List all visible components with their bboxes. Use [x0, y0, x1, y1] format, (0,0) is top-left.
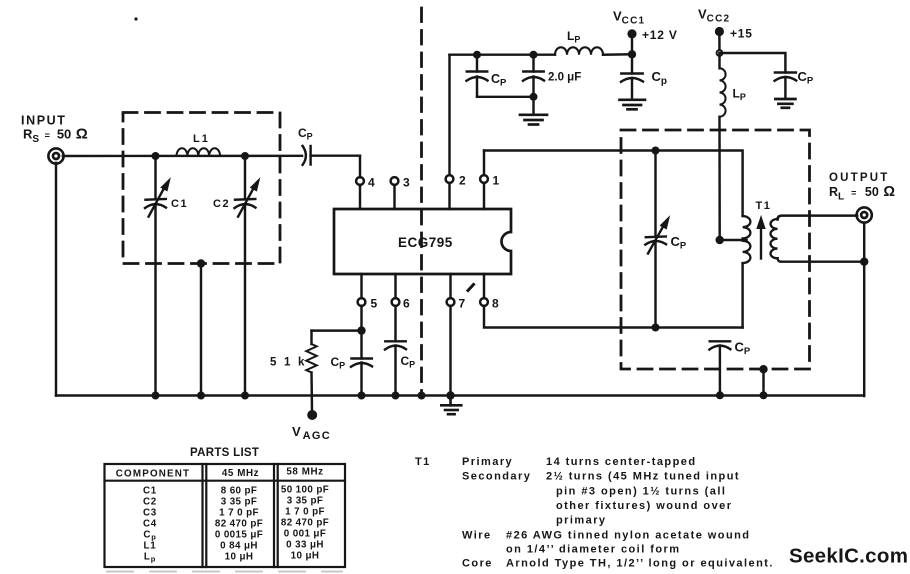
ground main [441, 396, 461, 415]
pin 8 number [492, 297, 499, 311]
svg-text:+15: +15 [730, 27, 753, 41]
node shield-bus [197, 392, 205, 400]
svg-text:pin #3 open) 1½ turns (all: pin #3 open) 1½ turns (all [556, 486, 726, 498]
capacitor Cp pin6 bypass [385, 306, 406, 396]
svg-text:2½ turns (45 MHz tuned input: 2½ turns (45 MHz tuned input [546, 471, 740, 483]
ground Vcc2 [775, 99, 795, 108]
svg-text:0 33 μH: 0 33 μH [286, 540, 324, 551]
wire shield to bus [200, 264, 202, 396]
Vcc2 label [698, 7, 730, 25]
capacitor Cp Vcc2 bypass [775, 73, 797, 99]
svg-text:C4: C4 [143, 519, 157, 530]
wire input down [55, 163, 57, 396]
U1 label [398, 235, 453, 250]
shield box (input tank) [123, 113, 280, 264]
node C2-bus [241, 392, 249, 400]
ground Vcc1 [620, 100, 646, 110]
svg-text:82 470 pF: 82 470 pF [281, 518, 329, 529]
svg-text:CP: CP [298, 126, 313, 142]
pin 1 [480, 175, 488, 209]
op-amp U1 ECG795 [334, 209, 511, 274]
pin 8 [480, 274, 488, 306]
wire Vcc1 rail [450, 53, 556, 55]
INPUT label [21, 114, 67, 128]
svg-text:CP: CP [671, 234, 687, 252]
wire input to tank [63, 155, 302, 158]
svg-text:1 7 0 pF: 1 7 0 pF [285, 507, 325, 518]
svg-text:VCC2: VCC2 [698, 7, 730, 25]
node shield ground tap [197, 259, 205, 267]
svg-text:on 1/4’’ diameter coil form: on 1/4’’ diameter coil form [506, 544, 680, 556]
node Vcc1 junction [628, 50, 636, 58]
capacitor C1 [145, 156, 170, 396]
svg-text:C1: C1 [171, 198, 188, 210]
+12 V label [642, 28, 678, 42]
svg-text:7: 7 [459, 297, 466, 311]
pin 4 number [368, 176, 375, 190]
svg-text:8 60 pF: 8 60 pF [221, 486, 258, 497]
table column component names [143, 486, 157, 564]
Vcc2 terminal [715, 27, 724, 53]
capacitor Cp rail bypass [467, 55, 488, 97]
svg-text:2.0 μF: 2.0 μF [548, 72, 581, 84]
svg-text:3 35 pF: 3 35 pF [221, 497, 258, 508]
wire pin8 down and right [484, 306, 743, 328]
wire pin1 to T1 primary top [484, 151, 743, 217]
node Vcc2 junction [717, 50, 723, 56]
svg-text:0 0015 μF: 0 0015 μF [215, 530, 263, 541]
node varcap top junction [652, 147, 660, 155]
node dashed line to bus [418, 392, 426, 400]
wire Vcc2 to Cp [720, 53, 786, 73]
scan smudge under table [107, 571, 342, 573]
node L1 left junction [152, 152, 160, 160]
SeekIC watermark [789, 545, 908, 568]
svg-text:3: 3 [403, 176, 410, 190]
wire ground bus [56, 394, 864, 396]
svg-text:Wire: Wire [462, 530, 492, 542]
svg-text:C1: C1 [143, 486, 157, 497]
svg-text:RL=50Ω: RL=50Ω [829, 184, 895, 203]
pin 5 number [371, 297, 378, 311]
svg-text:8: 8 [492, 297, 499, 311]
svg-text:Core: Core [462, 558, 493, 570]
Vagc terminal [307, 410, 317, 420]
Lp Vcc2 label [733, 87, 746, 103]
OUTPUT label [829, 172, 889, 184]
pin 7 number [459, 297, 466, 311]
svg-text:5: 5 [371, 297, 378, 311]
wire pin7 to ground [449, 306, 451, 396]
Cp pin6 label [401, 354, 416, 370]
inductor Lp rail [555, 47, 603, 54]
2.0uF label [548, 72, 581, 84]
shield box (output tank) [621, 130, 810, 369]
capacitor 2.0uF [523, 55, 544, 115]
resistor R1 5.1k [306, 331, 361, 411]
Rs = 50 ohm label [23, 126, 88, 146]
svg-text:SeekIC.com: SeekIC.com [789, 545, 908, 568]
svg-text:CP: CP [491, 72, 507, 89]
RL = 50 ohm label [829, 184, 895, 203]
svg-text:45 MHz: 45 MHz [222, 468, 259, 479]
R1 value 5.1k [270, 357, 307, 369]
Vcc1 label [613, 9, 645, 27]
pin 7 [447, 274, 455, 306]
wire pin5 down [360, 306, 362, 359]
node varcap bottom junction [652, 324, 660, 332]
node secondary bottom junction [860, 258, 868, 266]
svg-text:5 1 k: 5 1 k [270, 357, 307, 369]
svg-text:+12 V: +12 V [642, 28, 678, 42]
node 2uF rail junction [530, 51, 538, 59]
svg-text:INPUT: INPUT [21, 114, 67, 128]
wire T1 primary bottom [741, 263, 743, 327]
Cp input label [298, 126, 313, 142]
Cp rail label [491, 72, 507, 89]
pin 5 [358, 274, 366, 306]
svg-text:L1: L1 [143, 541, 156, 552]
wire output down to bus [863, 223, 865, 396]
svg-text:ECG795: ECG795 [398, 235, 453, 250]
capacitor C2 [235, 156, 260, 396]
svg-text:COMPONENT: COMPONENT [116, 469, 190, 480]
pin 2 [446, 175, 454, 209]
svg-text:82 470 pF: 82 470 pF [215, 519, 263, 530]
svg-text:50 100 pF: 50 100 pF [281, 485, 329, 496]
variable capacitor Cp output tank [645, 151, 669, 328]
C2 label [213, 198, 230, 210]
node Cp bottom bus [716, 391, 724, 399]
svg-text:OUTPUT: OUTPUT [829, 172, 889, 184]
node pin5 / resistor junction [357, 326, 365, 334]
svg-text:CP: CP [331, 355, 346, 371]
wire pin2 to Vcc1 rail [448, 55, 450, 176]
node Cp rail junction [473, 51, 481, 59]
svg-text:T1: T1 [415, 456, 431, 468]
svg-text:4: 4 [368, 176, 375, 190]
svg-text:primary: primary [556, 515, 607, 527]
Cp output tank label [671, 234, 687, 252]
svg-text:Primary: Primary [462, 456, 513, 468]
stray tick mark [468, 285, 474, 291]
svg-text:#26 AWG tinned nylon acetate w: #26 AWG tinned nylon acetate wound [506, 530, 750, 542]
svg-text:VAGC: VAGC [292, 424, 331, 442]
svg-text:0 84 μH: 0 84 μH [220, 541, 258, 552]
table column 45 MHz values [215, 486, 263, 563]
T1 coupling arrow [757, 217, 765, 259]
wire cap bottoms link [477, 96, 534, 98]
svg-text:10 μH: 10 μH [291, 551, 320, 562]
svg-text:1: 1 [493, 174, 500, 188]
capacitor Cp output bottom [709, 341, 730, 395]
transformer T1 secondary [771, 219, 778, 258]
node pin5-bus [358, 392, 366, 400]
inductor L1 [177, 148, 221, 156]
svg-text:CP: CP [735, 340, 751, 358]
node shield2 ground tap [759, 365, 767, 373]
ground 2uF [520, 115, 547, 125]
pin 3 number [403, 176, 410, 190]
T1 notes block [415, 456, 774, 570]
svg-text:0 001 μF: 0 001 μF [284, 529, 326, 540]
node pin6-bus [392, 392, 400, 400]
svg-text:58 MHz: 58 MHz [286, 467, 323, 478]
Cp Vcc1 label [652, 69, 668, 87]
svg-text:CP: CP [401, 354, 416, 370]
pin 3 [391, 177, 399, 209]
svg-text:Cp: Cp [652, 69, 668, 87]
svg-text:10 μH: 10 μH [225, 552, 254, 563]
svg-text:LP: LP [733, 87, 746, 103]
svg-text:T1: T1 [756, 200, 772, 212]
pin 6 [392, 274, 400, 306]
pin 1 number [493, 174, 500, 188]
wire pin1 up [483, 151, 485, 176]
wire secondary top to output [778, 216, 858, 220]
svg-text:1 7 0 pF: 1 7 0 pF [219, 508, 259, 519]
speck [134, 17, 137, 20]
svg-text:6: 6 [403, 297, 410, 311]
node C1-bus [152, 392, 160, 400]
inductor Lp Vcc2 [720, 53, 726, 240]
svg-text:Lp: Lp [144, 552, 156, 564]
svg-text:CP: CP [798, 69, 814, 87]
svg-text:Secondary: Secondary [462, 471, 531, 483]
wire shield2 to bus [762, 369, 764, 395]
Cp pin5 label [331, 355, 346, 371]
Cp Vcc2 label [798, 69, 814, 87]
dashed shield centre line [420, 8, 423, 395]
node link junction [530, 93, 538, 101]
svg-text:LP: LP [567, 29, 580, 45]
Lp rail label [567, 29, 580, 45]
input terminal J1 [48, 148, 63, 163]
transformer T1 primary [743, 216, 751, 238]
svg-text:Arnold Type TH, 1/2’’ long or: Arnold Type TH, 1/2’’ long or equivalent… [506, 558, 774, 570]
svg-text:C3: C3 [143, 508, 157, 519]
L1 value label [193, 133, 210, 145]
svg-text:C2: C2 [213, 198, 230, 210]
svg-text:VCC1: VCC1 [613, 9, 645, 27]
svg-text:14 turns center-tapped: 14 turns center-tapped [546, 456, 696, 468]
svg-text:C2: C2 [143, 497, 157, 508]
svg-text:RS=50Ω: RS=50Ω [23, 126, 88, 146]
wire Lp to Vcc1 [603, 53, 632, 56]
capacitor Cp Vcc1 bypass [621, 54, 643, 99]
wire Cp to pin4 [359, 156, 361, 178]
node shield2 bus [760, 391, 768, 399]
svg-text:3 35 pF: 3 35 pF [287, 496, 324, 507]
Vcc1 terminal [627, 29, 636, 54]
wire centre tap [720, 239, 747, 241]
pin 4 [356, 177, 364, 209]
svg-text:2: 2 [459, 174, 466, 188]
T1 label [756, 200, 772, 212]
node L1 right junction [241, 152, 249, 160]
C1 label [171, 198, 188, 210]
node pin7-bus [446, 391, 454, 399]
coupling capacitor Cp input [303, 146, 360, 165]
svg-text:L1: L1 [193, 133, 210, 145]
Vagc label [292, 424, 331, 442]
PARTS LIST title [190, 447, 259, 459]
+15 label [730, 27, 753, 41]
svg-text:PARTS LIST: PARTS LIST [190, 447, 259, 459]
wire secondary bottom [778, 258, 865, 262]
Cp output bottom label [735, 340, 751, 358]
parts table frame [105, 464, 346, 567]
output terminal J2 [857, 207, 872, 222]
capacitor Cp pin5 bypass [351, 359, 372, 396]
table column 58 MHz values [281, 485, 329, 562]
pin 2 number [459, 174, 466, 188]
node T1 centre tap [716, 236, 724, 244]
table headers [116, 467, 324, 480]
svg-text:other fixtures) wound over: other fixtures) wound over [556, 500, 732, 512]
pin 6 number [403, 297, 410, 311]
